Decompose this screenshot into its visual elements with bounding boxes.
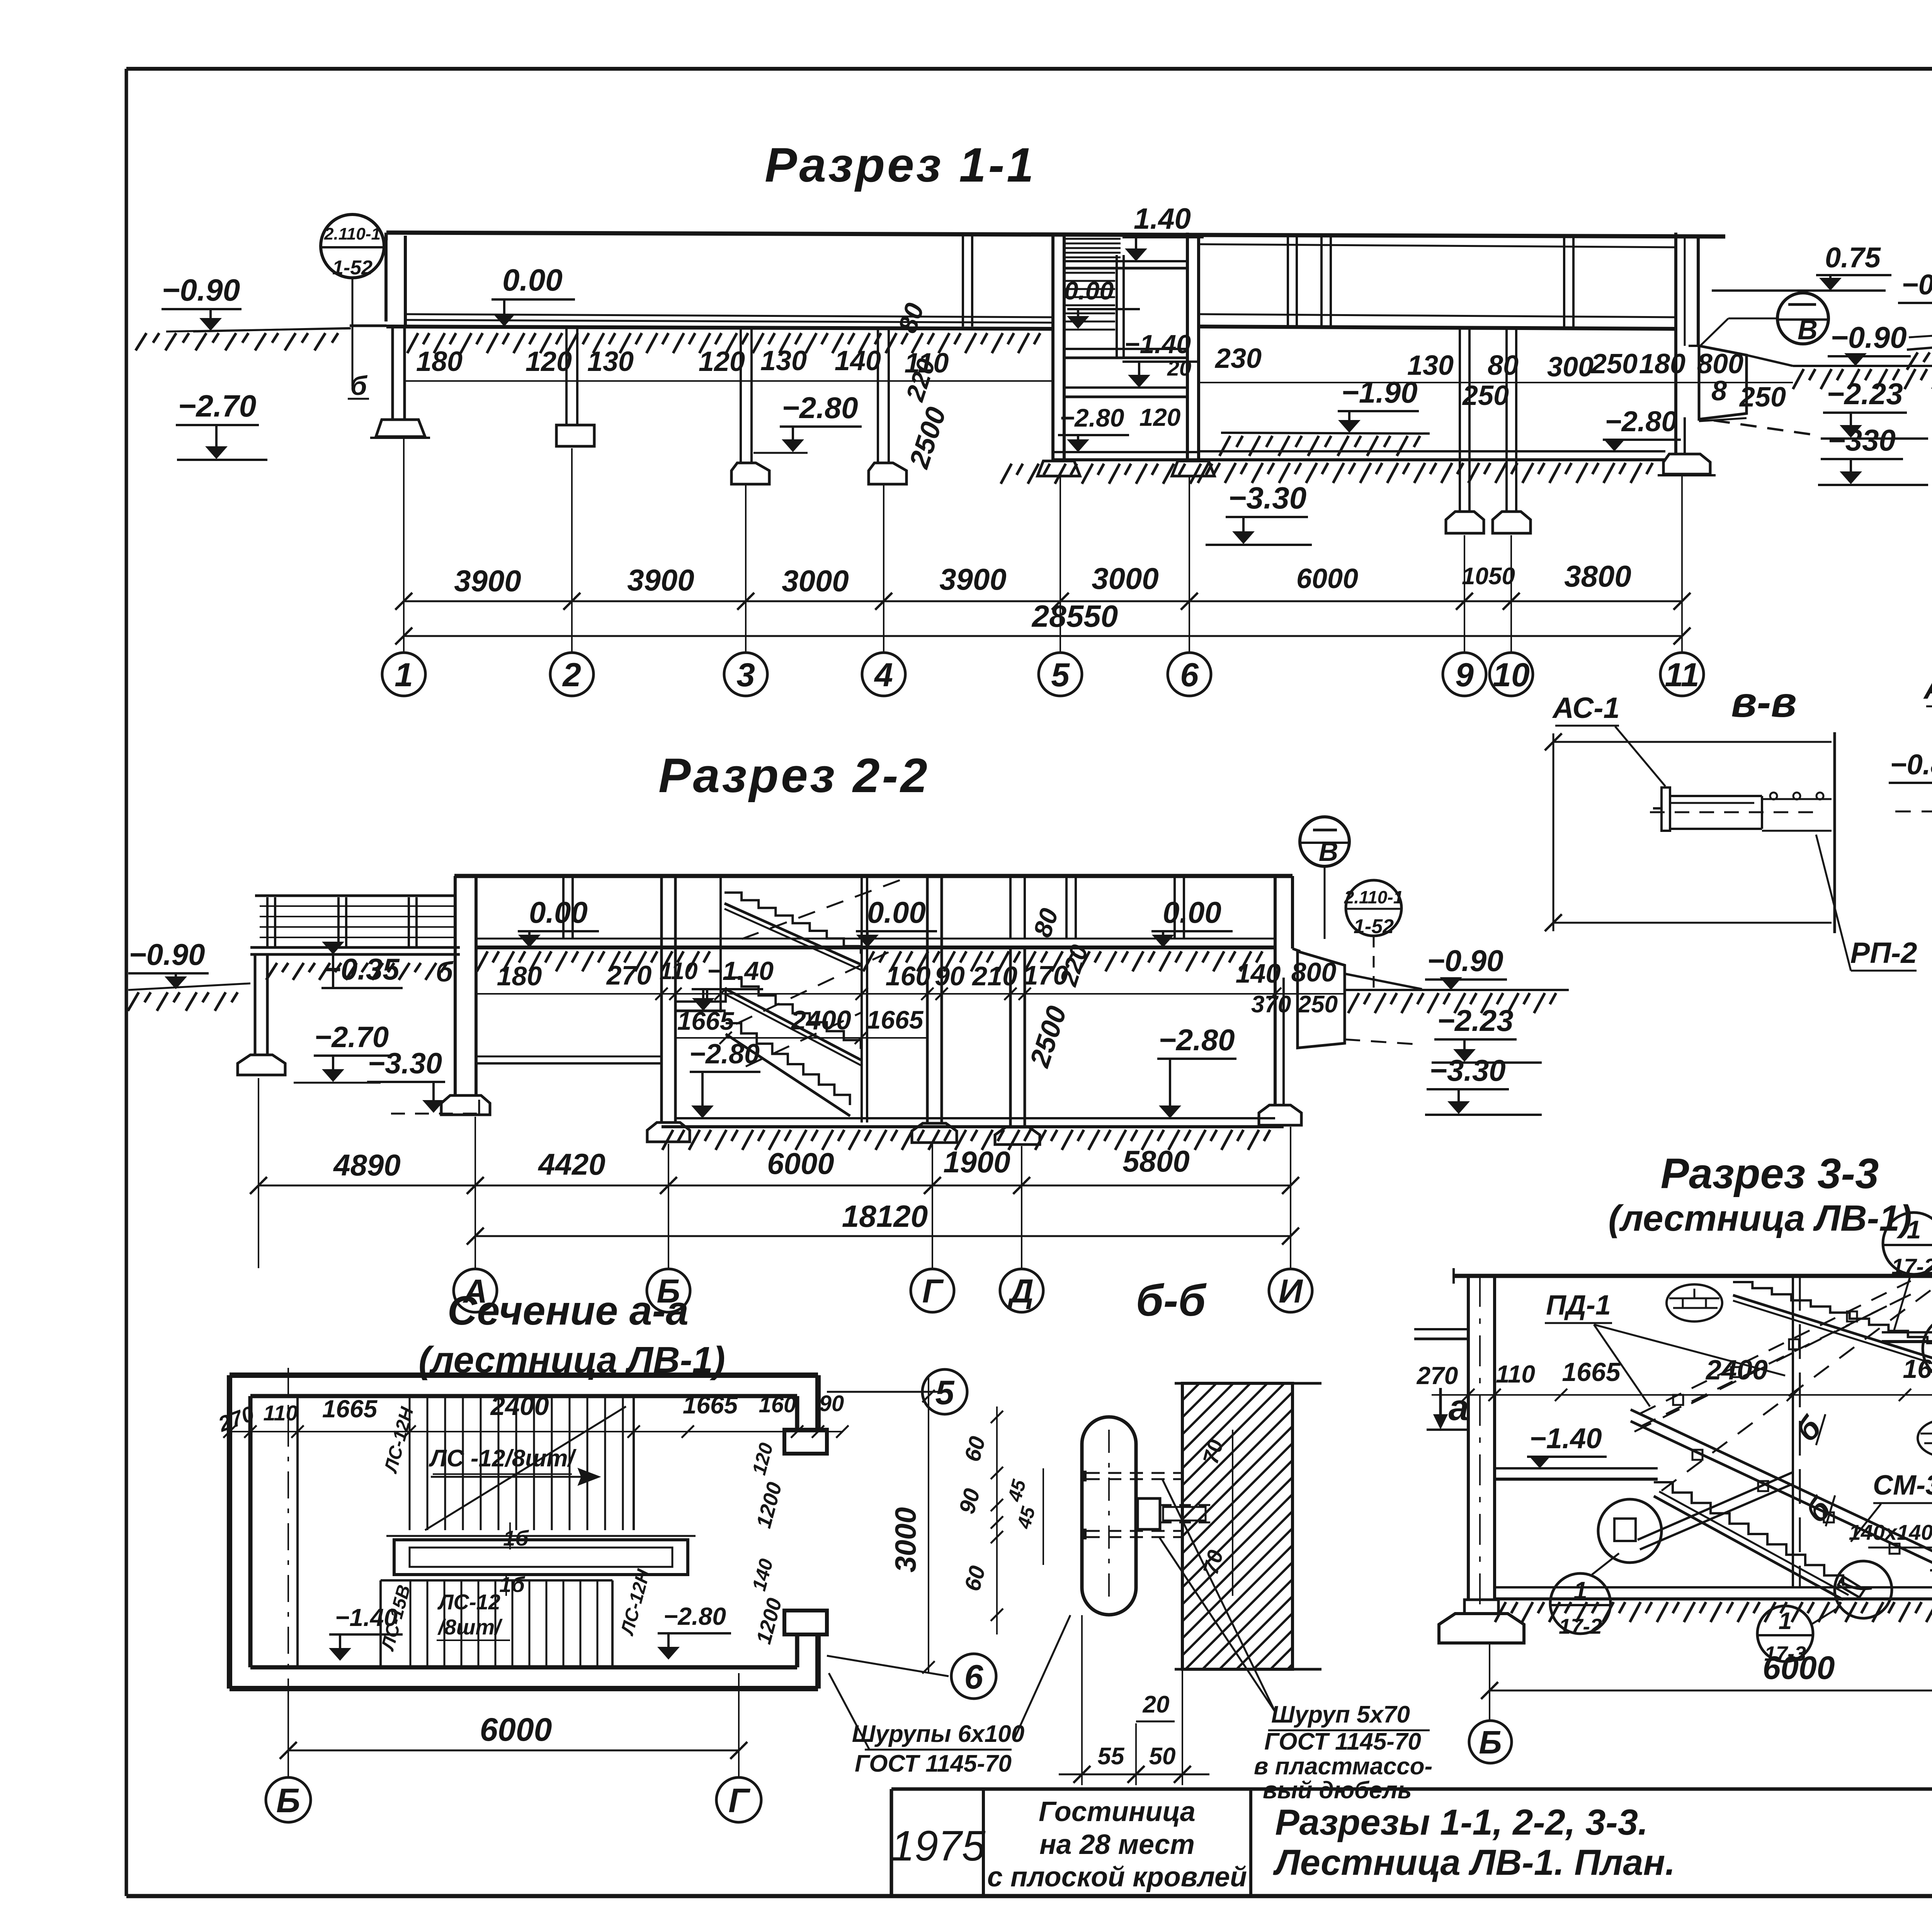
svg-text:Шуруп 5х70: Шуруп 5х70 — [1271, 1701, 1410, 1728]
upper floor beams Razrez 3-3 — [1414, 1329, 1932, 1357]
svg-text:3: 3 — [736, 656, 755, 694]
brick hatch oval 1 — [1667, 1284, 1722, 1321]
svg-text:8: 8 — [1711, 376, 1727, 406]
railing dashed lines Razrez 3-3 — [1634, 1263, 1932, 1491]
hatched wall AC-1 detail — [1812, 740, 1932, 923]
svg-text:−2.70: −2.70 — [178, 389, 256, 423]
svg-text:2400: 2400 — [490, 1391, 549, 1421]
svg-text:20: 20 — [1143, 1691, 1170, 1718]
tower landing slab upper — [1064, 261, 1187, 268]
bracket plate b-b — [1138, 1498, 1211, 1529]
svg-text:/8шт/: /8шт/ — [437, 1615, 503, 1639]
svg-text:Б: Б — [276, 1781, 300, 1820]
level mark -2.80 Razrez 3-3 — [1930, 1534, 1932, 1587]
dimension line Razrez 2-2 spans — [250, 1144, 1299, 1194]
svg-text:Разрез 2-2: Разрез 2-2 — [658, 749, 930, 803]
level mark -2.80 tower — [1058, 403, 1180, 452]
svg-text:300: 300 — [1547, 352, 1594, 383]
svg-text:270: 270 — [606, 960, 652, 990]
svg-text:17-2: 17-2 — [1559, 1614, 1602, 1638]
tower stair treads ladder — [1066, 273, 1115, 330]
level mark -2.80 under axis 4 — [753, 391, 862, 453]
title block sheet title — [1273, 1802, 1675, 1883]
svg-text:180: 180 — [416, 346, 463, 377]
svg-text:160: 160 — [886, 961, 931, 991]
svg-text:0.75: 0.75 — [1825, 241, 1881, 274]
tower handrail post — [1117, 255, 1124, 357]
svg-text:140: 140 — [1236, 958, 1281, 988]
svg-text:Гостиница: Гостиница — [1039, 1796, 1196, 1827]
svg-text:Разрезы 1-1, 2-2, 3-3.: Разрезы 1-1, 2-2, 3-3. — [1275, 1802, 1648, 1842]
v-v anchor bracket — [1650, 787, 1832, 831]
level mark -3.30 right of 2-2 — [1425, 1053, 1542, 1115]
lower flight treads plan — [381, 1580, 612, 1667]
porch step left of axis 1 — [193, 326, 386, 401]
marker circle 2.110-1/1-52 left of Razrez 1-1 — [321, 214, 384, 386]
svg-text:5: 5 — [1051, 656, 1070, 694]
ground hatch row under floor left span — [407, 333, 1040, 353]
stairwell walls 2-2 — [721, 876, 867, 1122]
svg-text:1665: 1665 — [683, 1391, 738, 1419]
svg-text:Д: Д — [1007, 1273, 1034, 1310]
svg-text:2.110-1: 2.110-1 — [324, 224, 381, 243]
svg-text:с плоской кровлей: с плоской кровлей — [987, 1862, 1247, 1893]
section title Razrez 2-2 — [658, 749, 930, 803]
svg-text:140: 140 — [835, 345, 881, 376]
svg-text:1665: 1665 — [677, 1007, 735, 1035]
label RP-2 at v-v — [1816, 835, 1917, 971]
svg-text:9: 9 — [1455, 656, 1474, 694]
roof line Razrez 1-1 — [386, 233, 1725, 240]
circled 6 at plan — [827, 1654, 996, 1699]
svg-text:−0.72: −0.72 — [1901, 269, 1932, 301]
screws dashed b-b — [1085, 1471, 1182, 1539]
dimension texts Razrez 2-2 — [476, 957, 1345, 1018]
column axis 2 — [556, 329, 594, 446]
title block hotel name — [987, 1796, 1247, 1893]
svg-text:−0.80: −0.80 — [1890, 748, 1932, 781]
axis circles Razrez 2-2 — [454, 1269, 1312, 1312]
level mark -0.90 left of Razrez 2-2 — [128, 937, 250, 1011]
axis extension lines Razrez 1-1 — [404, 439, 1682, 652]
svg-text:Шурупы 6х100: Шурупы 6х100 — [852, 1721, 1024, 1747]
svg-text:3900: 3900 — [939, 562, 1007, 596]
canopy bracket at axis I 2-2 — [1298, 951, 1422, 1048]
rotated dimension texts 80 220 2500 tower — [893, 299, 952, 473]
svg-text:−3.30: −3.30 — [1429, 1053, 1505, 1087]
label AC-1 anchor detail — [1923, 671, 1932, 806]
hatched wall b-b — [896, 1383, 1573, 1669]
level mark 1.40 tower top — [1122, 202, 1204, 261]
svg-text:180: 180 — [1639, 349, 1685, 379]
level mark -2.70 left — [176, 389, 267, 460]
svg-text:0.00: 0.00 — [529, 895, 588, 929]
partition walls axes 6-9 Razrez 1-1 — [1288, 236, 1331, 327]
svg-text:(лестница ЛВ-1): (лестница ЛВ-1) — [1608, 1198, 1912, 1239]
svg-text:250: 250 — [1739, 382, 1786, 413]
svg-text:2.110-1: 2.110-1 — [1344, 887, 1403, 907]
svg-text:160: 160 — [759, 1392, 796, 1417]
svg-text:СМ-3: СМ-3 — [1873, 1470, 1932, 1501]
svg-text:250: 250 — [1590, 349, 1638, 379]
svg-text:55: 55 — [1098, 1743, 1125, 1770]
svg-text:−2.23: −2.23 — [1437, 1003, 1513, 1037]
svg-text:а: а — [1449, 1387, 1469, 1428]
level mark -1.40 Razrez 3-3 — [1527, 1422, 1607, 1468]
stair flight 1 Razrez 2-2 — [724, 893, 861, 970]
tower mid slab — [1064, 349, 1187, 358]
level mark -2.70 porch footing — [294, 1021, 392, 1083]
label AC-1 at v-v — [1552, 692, 1665, 786]
svg-text:Г: Г — [922, 1273, 944, 1310]
svg-text:Лестница ЛВ-1. План.: Лестница ЛВ-1. План. — [1273, 1842, 1675, 1883]
svg-text:6000: 6000 — [1296, 563, 1358, 594]
svg-text:80: 80 — [1488, 350, 1519, 381]
tower lower landing slab — [1064, 388, 1187, 397]
level mark 0.00 left span — [492, 263, 575, 327]
hatched wall left 7-7 — [1913, 338, 1932, 423]
svg-text:2400: 2400 — [790, 1005, 851, 1035]
section title Razrez 3-3 — [1608, 1150, 1912, 1239]
handrail capsule b-b — [1082, 1417, 1136, 1615]
svg-text:120: 120 — [1139, 403, 1181, 431]
tower bottom slab — [1053, 452, 1199, 460]
svg-text:−3.30: −3.30 — [1228, 481, 1306, 515]
svg-text:−2.80: −2.80 — [1060, 403, 1124, 432]
callout circle V 2-2 — [1300, 817, 1349, 939]
svg-text:1975: 1975 — [891, 1822, 986, 1870]
level mark -1.40 stairwell — [660, 956, 774, 1011]
dimension row Razrez 3-3 — [1417, 1354, 1932, 1401]
svg-text:ГОСТ 1145-70: ГОСТ 1145-70 — [855, 1750, 1012, 1777]
mid ground slope with hatch -1.90 — [1219, 433, 1430, 456]
svg-text:в пластмассо-: в пластмассо- — [1254, 1753, 1432, 1780]
svg-text:Г: Г — [728, 1781, 751, 1820]
svg-text:в-в: в-в — [1731, 679, 1797, 726]
level mark -1.40 tower — [1122, 330, 1197, 388]
svg-text:3900: 3900 — [454, 564, 521, 598]
svg-text:1665: 1665 — [322, 1395, 378, 1423]
stair flight 3 Razrez 2-2 — [726, 1023, 850, 1116]
stair tower wall axis 5 — [1053, 233, 1064, 461]
svg-text:−2.80: −2.80 — [1605, 405, 1677, 437]
svg-text:1665: 1665 — [1562, 1357, 1621, 1387]
svg-text:1б: 1б — [503, 1526, 529, 1550]
svg-text:−0.90: −0.90 — [162, 273, 240, 307]
svg-text:6000: 6000 — [1763, 1650, 1835, 1686]
svg-text:3000: 3000 — [1092, 561, 1159, 595]
svg-text:3000: 3000 — [782, 564, 849, 598]
plan outer walls a-a — [230, 1375, 818, 1689]
svg-text:−1.40: −1.40 — [335, 1604, 398, 1631]
svg-text:б: б — [436, 957, 454, 988]
svg-text:250: 250 — [1462, 380, 1509, 411]
label 140x140x50 shag 600 — [1849, 1520, 1932, 1548]
middle stringer diagonal SM-3 — [1631, 1410, 1932, 1596]
svg-text:б: б — [350, 371, 367, 401]
main floor slab left span — [386, 314, 1053, 329]
level mark -0.35 porch — [266, 942, 454, 988]
svg-text:130: 130 — [587, 346, 634, 377]
lower stair flight Razrez 3-3 — [1654, 1482, 1872, 1600]
node circle top Razrez 3-3 — [1923, 1315, 1932, 1382]
svg-text:Разрез 3-3: Разрез 3-3 — [1661, 1150, 1879, 1197]
tower hatched band top — [1064, 239, 1121, 257]
svg-text:110: 110 — [660, 958, 698, 985]
left basement slab -2.70 area — [476, 1056, 662, 1063]
stair mid landing 2-2 — [675, 989, 726, 1011]
svg-text:−1.40: −1.40 — [707, 956, 774, 986]
svg-text:−0.90: −0.90 — [1427, 944, 1503, 978]
svg-text:120: 120 — [699, 346, 745, 377]
axis circles Razrez 1-1 — [382, 653, 1704, 696]
stair flight 2 Razrez 2-2 — [724, 978, 861, 1065]
label Shurupy 6x100 GOST — [829, 1615, 1070, 1777]
column axis 4 — [869, 329, 906, 484]
dimension line Razrez 1-1 total 28550 — [395, 599, 1690, 645]
circled 5 at plan — [827, 1369, 967, 1414]
svg-text:ГОСТ 1145-70: ГОСТ 1145-70 — [1264, 1728, 1421, 1755]
rotated dims 80 220 2500 at 2-2 — [1024, 905, 1094, 1071]
wall axis I 2-2 — [1259, 876, 1301, 1125]
diagonal break line upper flight — [425, 1406, 626, 1530]
svg-text:3900: 3900 — [627, 563, 694, 597]
svg-text:−0.90: −0.90 — [129, 937, 205, 971]
svg-text:800: 800 — [1697, 349, 1743, 379]
svg-text:1.40: 1.40 — [1134, 202, 1191, 235]
section mark a left — [1427, 1387, 1469, 1430]
svg-text:ПД-1: ПД-1 — [1546, 1290, 1611, 1321]
window mullions Razrez 2-2 — [563, 876, 1184, 939]
level marks plan a-a — [329, 1602, 731, 1661]
column axis 3 — [731, 329, 769, 484]
footing axis 1 — [370, 420, 430, 438]
svg-text:1665: 1665 — [867, 1005, 924, 1034]
svg-text:−2.80: −2.80 — [1158, 1023, 1235, 1057]
node circle bottom Razrez 3-3 — [1835, 1561, 1892, 1618]
ceiling line Razrez 3-3 — [1454, 1268, 1932, 1284]
svg-text:1-52: 1-52 — [1354, 915, 1394, 938]
svg-text:6: 6 — [1180, 656, 1199, 694]
svg-text:6: 6 — [964, 1658, 984, 1696]
svg-text:10: 10 — [1493, 656, 1530, 694]
pier axis D 2-2 — [995, 876, 1040, 1145]
level mark -0.72 at 7-7 — [1898, 269, 1932, 328]
detail title b-b — [1136, 1276, 1207, 1325]
hidden beams PD-1 dashed — [1640, 1281, 1911, 1427]
svg-text:1б: 1б — [499, 1572, 525, 1597]
svg-text:1050: 1050 — [1462, 563, 1515, 590]
axis extension lines Razrez 2-2 — [259, 1078, 1291, 1268]
v-v detail frame lines — [1545, 732, 1835, 933]
svg-text:В: В — [1798, 315, 1818, 345]
dimension line Razrez 2-2 total 18120 — [467, 1199, 1299, 1245]
svg-text:Сечение а-а: Сечение а-а — [447, 1288, 689, 1333]
level mark -2.80 right room 2-2 — [1157, 1023, 1236, 1118]
stair tower wall axis 6 — [1187, 233, 1199, 461]
svg-text:−1.40: −1.40 — [1124, 330, 1191, 359]
detail title v-v — [1731, 679, 1797, 726]
level mark 0.75 canopy right — [1712, 241, 1891, 291]
svg-text:ЛС -12/8шт/: ЛС -12/8шт/ — [429, 1445, 577, 1472]
svg-text:50: 50 — [1149, 1743, 1176, 1770]
svg-text:18120: 18120 — [842, 1199, 928, 1233]
svg-text:0.00: 0.00 — [1163, 895, 1221, 929]
svg-text:−2.80: −2.80 — [782, 391, 858, 425]
svg-text:6000: 6000 — [767, 1146, 834, 1180]
svg-text:−2.80: −2.80 — [663, 1602, 726, 1630]
svg-text:б-б: б-б — [1136, 1276, 1207, 1325]
svg-text:140х140х50 шаг 600: 140х140х50 шаг 600 — [1849, 1520, 1932, 1544]
svg-text:4890: 4890 — [333, 1148, 401, 1182]
svg-text:−2.23: −2.23 — [1827, 377, 1903, 411]
tower footings — [1001, 461, 1214, 484]
svg-text:130: 130 — [760, 345, 807, 376]
right wall axis 11 — [1676, 233, 1698, 454]
svg-text:130: 130 — [1407, 350, 1454, 381]
basement columns axes 9 and 10 — [1446, 329, 1531, 533]
level mark -3.30 porch — [367, 1047, 479, 1114]
svg-text:1900: 1900 — [943, 1145, 1010, 1179]
plan right wall pilasters a-a — [784, 1375, 827, 1689]
basement slab Razrez 3-3 — [1495, 1587, 1932, 1622]
floor slab 0.00 Razrez 3-3 — [1882, 1332, 1932, 1342]
svg-text:180: 180 — [497, 961, 542, 991]
footing axis 11 — [1658, 454, 1716, 475]
basement span axes 6-11 upper slab — [1199, 244, 1676, 329]
left dims b-b — [954, 1406, 1043, 1634]
dimension row plan a-a — [215, 1391, 849, 1438]
floor slab 0.00 Razrez 2-2 — [476, 939, 1275, 971]
svg-text:1: 1 — [1573, 1577, 1587, 1604]
level mark 0.00 tower — [1064, 276, 1140, 329]
svg-text:110: 110 — [263, 1401, 298, 1425]
svg-text:110: 110 — [1496, 1360, 1535, 1388]
wall axis B 2-2 — [647, 876, 690, 1142]
svg-text:Б: Б — [1479, 1724, 1502, 1760]
svg-text:11: 11 — [1665, 656, 1699, 694]
right dims 70 70 b-b — [1198, 1430, 1233, 1596]
svg-text:АС-1: АС-1 — [1552, 692, 1620, 724]
svg-text:270: 270 — [1417, 1362, 1458, 1389]
level mark -0.90 right of axis 11 — [1793, 320, 1932, 389]
axis circles B G Razrez 3-3 — [1469, 1721, 1932, 1763]
label PD-1 — [1545, 1290, 1785, 1406]
roof line Razrez 2-2 — [454, 874, 1293, 878]
wall axis A 2-2 — [441, 876, 490, 1115]
section title Razrez 1-1 — [765, 138, 1036, 192]
svg-text:−330: −330 — [1828, 423, 1896, 457]
title block frame — [891, 1789, 1932, 1896]
svg-text:120: 120 — [526, 346, 572, 377]
svg-text:1-52: 1-52 — [332, 257, 372, 279]
svg-text:на 28 мест: на 28 мест — [1039, 1829, 1195, 1860]
section title Sechenie a-a — [418, 1288, 725, 1381]
marker circle 2.110-1/1-52 at 2-2 — [1344, 880, 1403, 989]
level mark -0.90 far left — [136, 273, 351, 350]
bottom dims b-b — [1059, 1615, 1209, 1785]
svg-text:1: 1 — [395, 656, 413, 694]
svg-text:Разрез 1-1: Разрез 1-1 — [765, 138, 1036, 192]
svg-text:0.00: 0.00 — [502, 263, 563, 297]
callout circle 1/17-3 bottom — [1757, 1606, 1840, 1665]
entrance canopy bracket right of axis 11 — [1699, 346, 1816, 435]
labels b/ on stringer — [1789, 1409, 1838, 1530]
ground lines beside 7-7 — [1907, 332, 1932, 370]
porch deck left of axis A — [250, 896, 460, 954]
basement slab 2-2 — [662, 1118, 1284, 1150]
left wall axis 1 — [386, 233, 405, 420]
axis circles B G plan — [266, 1777, 761, 1822]
level mark -0.90 right of 2-2 — [1345, 944, 1569, 1013]
svg-text:90 210: 90 210 — [935, 961, 1017, 991]
labels LS-12 plan — [377, 1405, 654, 1653]
level mark -2.23 right — [1821, 377, 1928, 439]
level mark -0.80 AC-1 — [1889, 748, 1932, 811]
node circle left Razrez 3-3 — [1598, 1472, 1793, 1563]
brick hatch oval 2 — [1918, 1420, 1932, 1457]
level mark -2.80 stairwell — [689, 1039, 760, 1118]
window mullions axis 4-5 Razrez 1-1 — [963, 236, 972, 327]
callout circle 1/17-2 top — [1883, 1213, 1932, 1330]
svg-text:ЛС-12: ЛС-12 — [437, 1590, 500, 1614]
svg-text:20: 20 — [1167, 356, 1191, 380]
svg-text:6000: 6000 — [480, 1711, 552, 1748]
svg-text:230: 230 — [1214, 343, 1262, 374]
svg-text:28550: 28550 — [1031, 599, 1118, 633]
svg-text:В: В — [1319, 837, 1338, 867]
level mark -1.90 basement — [1338, 375, 1419, 433]
svg-text:1: 1 — [1779, 1608, 1792, 1634]
plan axis line B vertical dashdot — [288, 1368, 298, 1739]
svg-text:АС-1: АС-1 — [1923, 671, 1932, 705]
dimension line Razrez 1-1 axis spans — [395, 559, 1690, 610]
label Shurup 5x70 GOST b-b — [1159, 1479, 1432, 1804]
svg-text:−1.90: −1.90 — [1341, 375, 1417, 409]
svg-text:0.00: 0.00 — [1064, 276, 1114, 305]
left column Razrez 3-3 — [1439, 1276, 1524, 1643]
vertical dims right side plan — [748, 1376, 935, 1673]
walk line arrow upper flight — [431, 1469, 599, 1485]
svg-text:5800: 5800 — [1122, 1144, 1190, 1178]
level mark -3.30 far right — [1818, 423, 1928, 485]
bottom dimension 6000 plan — [280, 1673, 747, 1777]
svg-text:−2.80: −2.80 — [689, 1039, 760, 1070]
level mark -2.80 right span — [1603, 405, 1681, 451]
partition wall near axis 11 Razrez 1-1 — [1564, 236, 1573, 327]
basement floor slab axes 6-11 — [1198, 451, 1665, 483]
svg-text:РП-2: РП-2 — [1850, 937, 1917, 969]
porch column and footing — [238, 954, 285, 1075]
svg-text:1: 1 — [1907, 1215, 1921, 1244]
dimension texts stair 2-2 — [675, 1005, 927, 1044]
title block year 1975 — [891, 1822, 986, 1870]
wall axis G 2-2 — [912, 876, 957, 1143]
mid wall Razrez 3-3 — [1793, 1276, 1800, 1587]
bottom dimension 6000 Razrez 3-3 — [1481, 1644, 1932, 1723]
svg-text:4420: 4420 — [537, 1147, 605, 1181]
level mark -3.30 basement — [1206, 481, 1312, 545]
svg-text:4: 4 — [874, 656, 893, 694]
stair railing dashed Razrez 2-2 — [736, 877, 908, 1066]
svg-text:−3.30: −3.30 — [368, 1047, 442, 1080]
svg-text:3000: 3000 — [889, 1507, 922, 1572]
svg-text:370 250: 370 250 — [1251, 991, 1338, 1018]
svg-text:5: 5 — [935, 1373, 955, 1412]
svg-text:0.00: 0.00 — [867, 895, 926, 929]
label SM-3 — [1851, 1470, 1932, 1542]
upper stair flight Razrez 3-3 — [1733, 1282, 1932, 1368]
